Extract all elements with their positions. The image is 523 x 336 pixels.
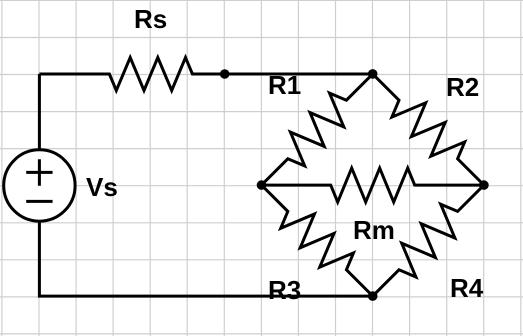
label Vs [86,174,118,200]
resistor R1 [262,74,373,185]
node D bottom [368,291,378,301]
node C right [479,180,489,190]
resistor Rs (zigzag with lead wires along top wire) [39,58,224,91]
voltage source Vs [4,150,75,221]
wire: Vs - terminal down and right to node D [39,221,372,296]
junction dot on top wire after Rs [220,69,230,79]
plus sign of Vs [26,159,52,186]
label R1 [268,72,301,98]
resistor R3 [262,185,373,296]
wire: Vs + terminal up to top-left corner [38,74,41,150]
resistor R4 [373,185,484,296]
minus sign of Vs [26,200,52,203]
node A top [368,69,378,79]
node B left [257,180,267,190]
resistor Rm [262,168,484,202]
wire: junction to node A [225,73,373,76]
label Rm [353,217,395,243]
label R3 [268,277,301,303]
label Rs [134,6,167,32]
label R2 [446,74,479,100]
label R4 [450,275,483,301]
resistor R2 [373,74,484,185]
